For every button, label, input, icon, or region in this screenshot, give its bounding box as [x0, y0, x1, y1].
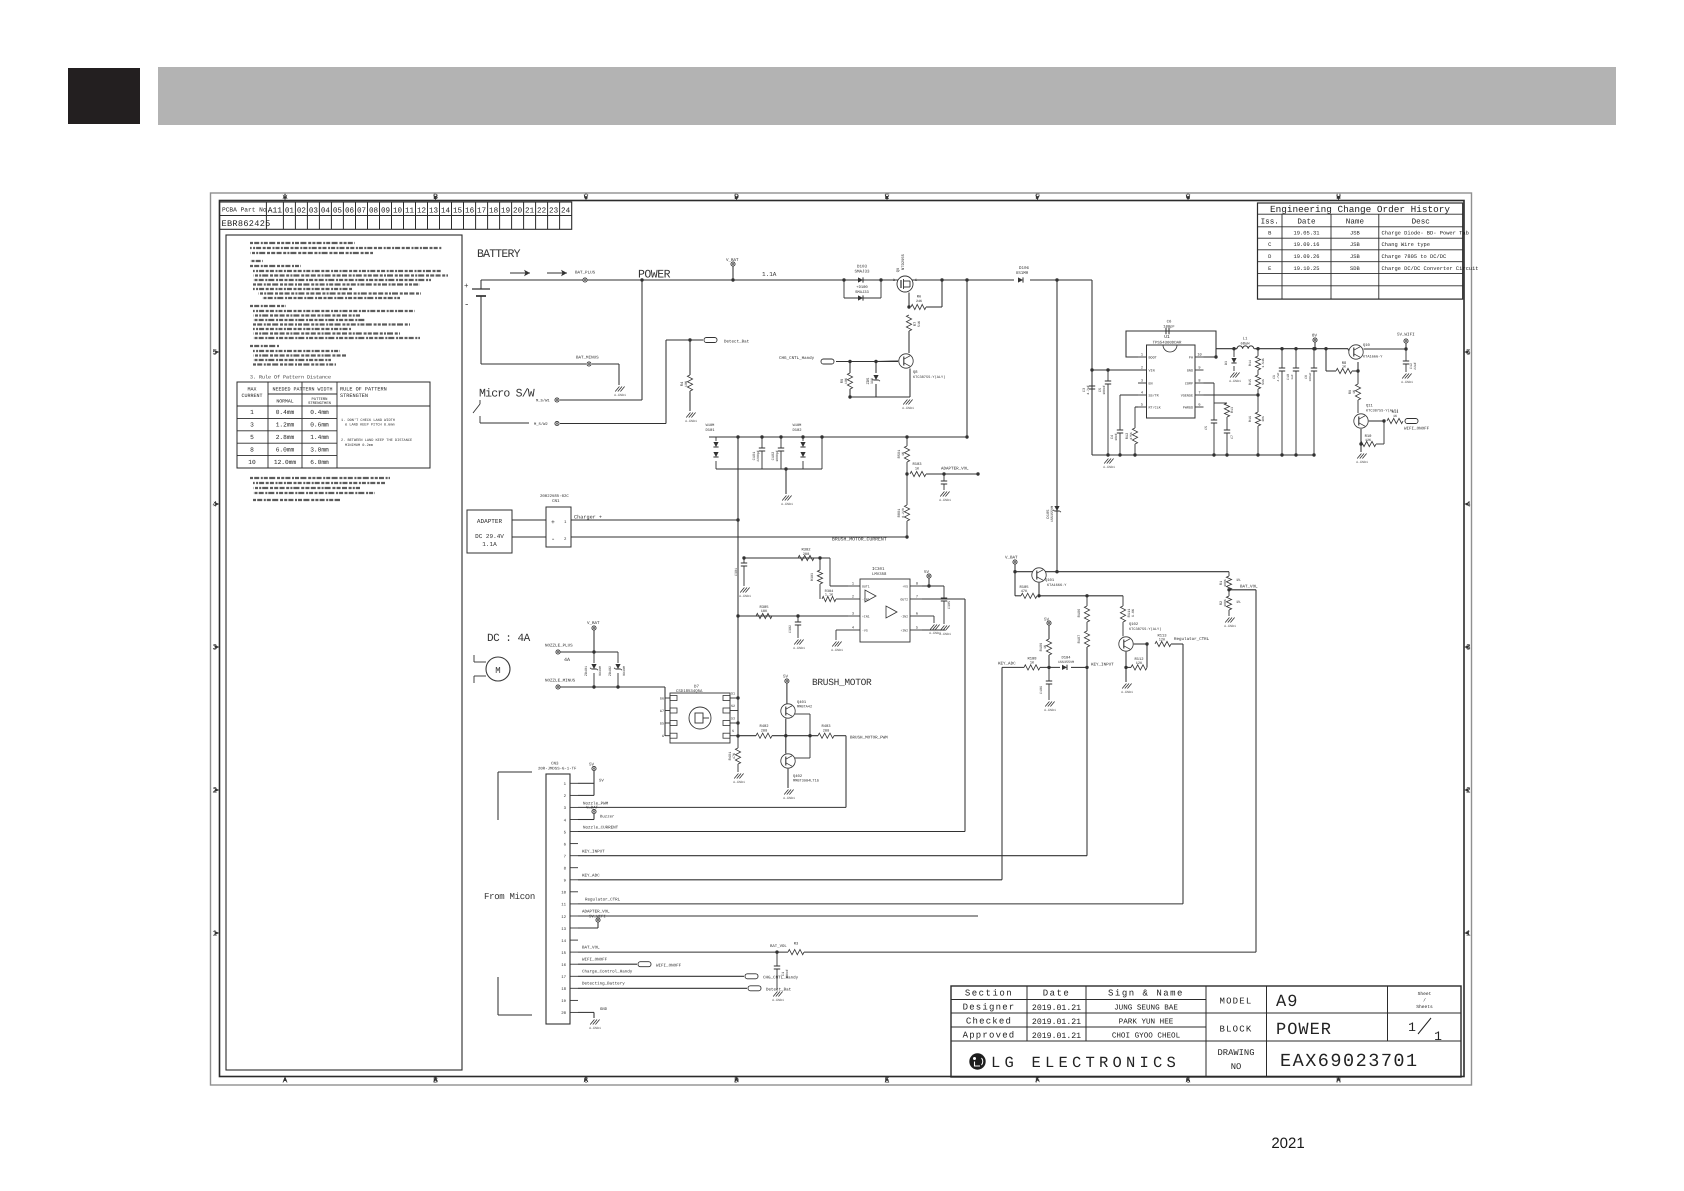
svg-text:14: 14 — [441, 207, 451, 215]
svg-text:C305: C305 — [947, 601, 952, 609]
svg-text:IC301: IC301 — [872, 567, 885, 572]
svg-text:2019.01.21: 2019.01.21 — [1032, 1004, 1081, 1013]
svg-text:4.7uF: 4.7uF — [1086, 385, 1090, 395]
svg-text:M: M — [495, 666, 500, 676]
svg-text:Q102: Q102 — [1129, 622, 1139, 627]
svg-text:A-GND1: A-GND1 — [929, 631, 941, 635]
svg-text:3: 3 — [852, 612, 854, 617]
svg-text:22: 22 — [537, 206, 547, 215]
svg-text:06: 06 — [345, 206, 355, 215]
svg-text:JUNG SEUNG BAE: JUNG SEUNG BAE — [1114, 1004, 1178, 1013]
svg-text:CHOI GYOO CHEOL: CHOI GYOO CHEOL — [1112, 1032, 1181, 1041]
svg-text:100K: 100K — [1223, 579, 1227, 587]
svg-text:DRAWING: DRAWING — [1218, 1048, 1255, 1058]
svg-text:PARK YUN HEE: PARK YUN HEE — [1119, 1019, 1174, 1027]
svg-text:A-GND1: A-GND1 — [1044, 708, 1056, 712]
svg-text:Buzzer: Buzzer — [600, 815, 615, 820]
svg-text:2021: 2021 — [1271, 1135, 1304, 1152]
svg-text:10K: 10K — [761, 609, 768, 614]
svg-text:STRENGTHEN: STRENGTHEN — [308, 401, 331, 406]
svg-text:MAX: MAX — [247, 387, 256, 393]
svg-text:4A: 4A — [564, 657, 570, 663]
svg-text:A-GND1: A-GND1 — [939, 498, 951, 502]
svg-text:Checked: Checked — [966, 1017, 1012, 1027]
svg-text:-IN2: -IN2 — [900, 615, 908, 619]
svg-text:-: - — [464, 300, 469, 310]
svg-text:18: 18 — [561, 987, 566, 992]
svg-text:23: 23 — [549, 206, 559, 215]
svg-text:20R-JMDSS-G-1-TF: 20R-JMDSS-G-1-TF — [538, 767, 577, 772]
svg-text:VIN: VIN — [1149, 369, 1155, 374]
svg-text:TPS54360DDAR: TPS54360DDAR — [1153, 341, 1182, 346]
svg-text:16: 16 — [561, 963, 566, 968]
svg-text:Charge Diode- BD- Power Tab: Charge Diode- BD- Power Tab — [1382, 231, 1469, 237]
svg-text:39V: 39V — [870, 377, 875, 384]
svg-text:SS/TR: SS/TR — [1149, 394, 1159, 399]
svg-text:22uF: 22uF — [1413, 362, 1417, 370]
svg-text:Q101: Q101 — [1045, 578, 1055, 583]
svg-text:WIFI_ONOFF: WIFI_ONOFF — [582, 958, 608, 963]
svg-text:9: 9 — [1198, 366, 1200, 371]
svg-text:CN3: CN3 — [551, 762, 559, 767]
svg-text:11: 11 — [561, 903, 566, 908]
svg-text:G7: G7 — [660, 709, 664, 714]
svg-text:47K: 47K — [732, 752, 737, 759]
svg-text:Detect_Bat: Detect_Bat — [766, 988, 792, 993]
svg-text:R106: R106 — [1077, 609, 1082, 618]
svg-text:12K: 12K — [1365, 438, 1372, 443]
svg-text:EN: EN — [1149, 382, 1153, 387]
svg-text:A11: A11 — [268, 206, 283, 215]
svg-text:G: G — [662, 734, 664, 739]
svg-text:A-GND1: A-GND1 — [902, 406, 914, 410]
svg-text:DC : 4A: DC : 4A — [487, 633, 531, 645]
svg-text:Name: Name — [1346, 219, 1365, 227]
svg-text:Date: Date — [1043, 989, 1071, 999]
svg-text:D104: D104 — [1061, 656, 1071, 661]
svg-text:7: 7 — [1198, 391, 1200, 396]
svg-text:Q401: Q401 — [797, 700, 807, 705]
svg-text:BRUSH_MOTOR_CURRENT: BRUSH_MOTOR_CURRENT — [832, 537, 887, 543]
svg-text:OUT1: OUT1 — [862, 585, 870, 589]
svg-text:02: 02 — [297, 206, 307, 215]
svg-text:A-GND1: A-GND1 — [1103, 465, 1115, 469]
svg-text:6: 6 — [916, 612, 918, 617]
svg-text:R303: R303 — [810, 573, 815, 581]
svg-text:C302: C302 — [788, 625, 793, 633]
svg-text:Q402: Q402 — [793, 774, 803, 779]
svg-text:R107: R107 — [1077, 635, 1082, 644]
svg-text:C5: C5 — [1204, 426, 1209, 430]
svg-text:7: 7 — [916, 595, 918, 600]
svg-text:VSENSE: VSENSE — [1181, 394, 1193, 399]
svg-text:D106: D106 — [1019, 266, 1030, 271]
svg-text:ADAPTER_VOL: ADAPTER_VOL — [582, 910, 610, 915]
svg-text:0.6mm: 0.6mm — [310, 422, 329, 429]
svg-text:05: 05 — [333, 206, 343, 215]
svg-text:11: 11 — [405, 207, 415, 215]
svg-text:2.8mm: 2.8mm — [276, 434, 295, 441]
svg-text:5V: 5V — [589, 763, 595, 768]
svg-text:KEY_INPUT: KEY_INPUT — [582, 850, 605, 855]
svg-text:D7: D7 — [694, 685, 700, 690]
svg-text:13: 13 — [429, 206, 439, 215]
svg-text:BAT_VOL: BAT_VOL — [582, 946, 600, 951]
svg-text:Micro S/W: Micro S/W — [479, 388, 535, 401]
svg-text:S1: S1 — [731, 692, 735, 697]
svg-text:A-GND1: A-GND1 — [1224, 624, 1236, 628]
svg-text:COMP: COMP — [1185, 382, 1193, 387]
svg-text:A-GND1: A-GND1 — [1401, 380, 1413, 384]
svg-text:100pF: 100pF — [1163, 325, 1175, 330]
svg-text:C6: C6 — [1167, 320, 1172, 325]
svg-text:R14: R14 — [1248, 360, 1253, 366]
svg-text:Q11: Q11 — [1366, 404, 1374, 409]
svg-text:08: 08 — [369, 206, 379, 215]
svg-text:100K: 100K — [1223, 599, 1227, 607]
svg-text:BAT_PLUS: BAT_PLUS — [575, 271, 596, 276]
svg-text:19: 19 — [501, 206, 511, 215]
svg-text:6.0mm: 6.0mm — [276, 446, 295, 453]
svg-text:NOZZLE_MINUS: NOZZLE_MINUS — [545, 679, 576, 684]
svg-text:W10M: W10M — [793, 423, 802, 428]
svg-text:R3: R3 — [794, 942, 799, 947]
svg-text:SDB: SDB — [1350, 266, 1360, 272]
svg-text:MODEL: MODEL — [1219, 997, 1252, 1007]
svg-text:Sheets: Sheets — [1416, 1004, 1433, 1010]
svg-text:R302: R302 — [801, 548, 811, 553]
svg-text:V_BAT: V_BAT — [586, 806, 599, 811]
svg-text:BATTERY: BATTERY — [477, 248, 521, 261]
svg-text:1uF: 1uF — [1291, 374, 1294, 380]
svg-text:D101: D101 — [705, 428, 715, 433]
svg-text:4.7uF: 4.7uF — [1277, 372, 1280, 381]
svg-text:G5: G5 — [660, 722, 664, 727]
svg-text:10K: 10K — [1261, 416, 1265, 422]
svg-text:5V_WIFI: 5V_WIFI — [1397, 333, 1415, 338]
svg-text:+IN2: +IN2 — [900, 629, 908, 633]
svg-text:EBR862425: EBR862425 — [222, 219, 271, 229]
svg-text:NEEDED PATTERN WIDTH: NEEDED PATTERN WIDTH — [272, 387, 332, 393]
svg-text:6.0mm: 6.0mm — [310, 459, 329, 466]
svg-text:8: 8 — [1198, 379, 1200, 384]
svg-text:A-GND1: A-GND1 — [589, 1026, 601, 1030]
svg-text:12K: 12K — [1159, 638, 1166, 643]
svg-text:JSB: JSB — [1350, 231, 1360, 237]
svg-text:A-GND1: A-GND1 — [1229, 379, 1241, 383]
svg-text:2. BETWEEN LAND KEEP THE DISTA: 2. BETWEEN LAND KEEP THE DISTANCE — [341, 438, 412, 443]
svg-text:24K: 24K — [916, 299, 923, 304]
svg-text:S3: S3 — [731, 717, 735, 722]
svg-text:1SS355VM: 1SS355VM — [1058, 660, 1074, 665]
svg-text:19: 19 — [561, 999, 566, 1004]
svg-text:PCBA Part No.: PCBA Part No. — [222, 207, 270, 214]
svg-text:PH: PH — [1189, 356, 1193, 361]
svg-text:BRUSH_MOTOR_PWM: BRUSH_MOTOR_PWM — [850, 736, 888, 741]
svg-text:-IN1: -IN1 — [862, 598, 870, 602]
svg-text:10: 10 — [393, 206, 403, 215]
svg-text:3. Rule Of Pattern Distance: 3. Rule Of Pattern Distance — [250, 375, 331, 381]
svg-text:20022985-02C: 20022985-02C — [540, 494, 569, 499]
svg-text:21: 21 — [525, 206, 535, 215]
svg-text:5: 5 — [250, 434, 254, 441]
svg-text:1SS355VM: 1SS355VM — [1050, 506, 1055, 522]
svg-text:R103: R103 — [912, 462, 922, 467]
svg-text:Detect_Bat: Detect_Bat — [724, 340, 750, 345]
svg-text:MMBTA42: MMBTA42 — [797, 705, 812, 710]
svg-text:KEY_ADC: KEY_ADC — [998, 662, 1016, 667]
svg-text:6.8K: 6.8K — [1131, 608, 1136, 617]
svg-text:51K: 51K — [917, 320, 922, 327]
svg-text:01: 01 — [285, 206, 295, 215]
svg-text:1.2mm: 1.2mm — [276, 422, 295, 429]
svg-text:10K: 10K — [844, 377, 849, 384]
svg-text:KEY_ADC: KEY_ADC — [582, 874, 600, 879]
svg-text:S: S — [732, 729, 734, 734]
svg-text:A9: A9 — [1276, 993, 1298, 1012]
svg-text:1: 1 — [1408, 1020, 1416, 1035]
svg-text:RULE OF PATTERN: RULE OF PATTERN — [340, 387, 387, 393]
svg-text:MMBT3904LT1G: MMBT3904LT1G — [793, 779, 819, 784]
svg-text:D3: D3 — [1224, 361, 1229, 365]
svg-text:E: E — [1268, 266, 1271, 272]
svg-text:Chang Wire type: Chang Wire type — [1382, 242, 1431, 248]
svg-text:0.4mm: 0.4mm — [276, 409, 295, 416]
svg-text:M_S/W2: M_S/W2 — [534, 422, 548, 427]
svg-text:15: 15 — [453, 207, 463, 215]
svg-text:18: 18 — [489, 206, 499, 215]
svg-text:19.10.25: 19.10.25 — [1294, 266, 1320, 272]
svg-text:RD39M: RD39M — [622, 666, 626, 676]
svg-text:Iss.: Iss. — [1261, 219, 1279, 227]
svg-text:Engineering Change Order Histo: Engineering Change Order History — [1270, 204, 1450, 215]
svg-text:5V_WIFI: 5V_WIFI — [589, 915, 606, 920]
svg-text:Charge DC/DC Converter Circuit: Charge DC/DC Converter Circuit — [1382, 266, 1479, 272]
svg-text:Sheet: Sheet — [1418, 991, 1432, 997]
svg-text:17: 17 — [561, 975, 566, 980]
svg-text:4: 4 — [1141, 391, 1143, 396]
svg-text:5: 5 — [1141, 403, 1143, 408]
svg-text:475K: 475K — [1129, 432, 1133, 440]
svg-text:R402: R402 — [759, 724, 769, 729]
svg-text:100uF: 100uF — [1309, 372, 1312, 381]
svg-text:14: 14 — [561, 939, 566, 944]
svg-text:10nF: 10nF — [1114, 433, 1118, 441]
svg-text:/: / — [1423, 998, 1426, 1004]
svg-text:WIFI_ONOFF: WIFI_ONOFF — [656, 964, 682, 969]
svg-text:10K: 10K — [684, 380, 689, 387]
svg-text:NOZZLE_PLUS: NOZZLE_PLUS — [545, 644, 573, 649]
svg-text:0.22R: 0.22R — [901, 508, 905, 518]
svg-text:R15: R15 — [1248, 379, 1253, 385]
svg-text:BOOT: BOOT — [1149, 356, 1157, 361]
svg-text:C106: C106 — [1039, 686, 1044, 694]
svg-text:KTA1666-Y: KTA1666-Y — [1363, 355, 1383, 360]
svg-text:A-GND1: A-GND1 — [831, 648, 843, 652]
svg-text:D: D — [893, 278, 895, 283]
svg-text:Section: Section — [965, 989, 1013, 999]
svg-text:& LAND KEEP PITCH 0.6mm: & LAND KEEP PITCH 0.6mm — [345, 423, 395, 428]
svg-text:D103: D103 — [857, 265, 868, 270]
svg-text:09: 09 — [381, 206, 391, 215]
svg-text:ZD401: ZD401 — [584, 666, 589, 676]
svg-text:12K: 12K — [1136, 661, 1143, 666]
svg-text:CN1: CN1 — [552, 499, 560, 504]
svg-text:KTC3875S-Y(ALY): KTC3875S-Y(ALY) — [1129, 627, 1161, 632]
svg-text:200: 200 — [761, 729, 767, 734]
svg-text:1: 1 — [1141, 353, 1143, 358]
svg-text:17: 17 — [477, 207, 486, 215]
svg-text:JSB: JSB — [1350, 254, 1360, 260]
svg-text:3: 3 — [250, 422, 254, 429]
svg-text:DC 29.4V: DC 29.4V — [475, 533, 504, 540]
svg-text:A-GND1: A-GND1 — [1121, 690, 1133, 694]
svg-text:07: 07 — [357, 206, 366, 215]
svg-text:10: 10 — [248, 459, 256, 466]
svg-text:3: 3 — [1141, 379, 1143, 384]
svg-text:+: + — [551, 519, 555, 526]
svg-text:+IN1: +IN1 — [862, 615, 870, 619]
svg-text:+VS: +VS — [902, 585, 908, 589]
svg-text:Approved: Approved — [963, 1031, 1016, 1041]
svg-text:US1M0: US1M0 — [1016, 271, 1029, 276]
svg-text:5V: 5V — [599, 779, 604, 784]
svg-text:100nF: 100nF — [1102, 385, 1106, 395]
svg-text:Q10: Q10 — [1363, 343, 1371, 348]
svg-text:1.1A: 1.1A — [482, 541, 497, 548]
svg-text:47K: 47K — [1021, 589, 1028, 594]
svg-text:1. DON'T CHECK LAND WIDTH: 1. DON'T CHECK LAND WIDTH — [341, 418, 395, 423]
svg-text:A-GND1: A-GND1 — [783, 796, 795, 800]
svg-text:Desc: Desc — [1412, 219, 1430, 227]
svg-text:C7: C7 — [1230, 435, 1235, 439]
svg-text:200: 200 — [823, 729, 829, 734]
svg-text:19.05.31: 19.05.31 — [1294, 231, 1320, 237]
svg-text:From Micon: From Micon — [484, 892, 535, 902]
svg-text:GND: GND — [1187, 369, 1193, 374]
svg-text:2200pF: 2200pF — [756, 450, 760, 462]
svg-text:KTC3875S-Y(ALY): KTC3875S-Y(ALY) — [913, 375, 945, 380]
svg-text:-: - — [551, 536, 555, 544]
svg-text:04: 04 — [321, 206, 331, 215]
svg-text:WIFI_ONOFF: WIFI_ONOFF — [1404, 427, 1430, 432]
svg-text:W10M: W10M — [706, 423, 715, 428]
svg-text:C: C — [1268, 242, 1271, 248]
svg-text:SMAJ33: SMAJ33 — [854, 270, 870, 275]
svg-text:19.09.26: 19.09.26 — [1294, 254, 1320, 260]
svg-text:Date: Date — [1297, 218, 1316, 227]
svg-text:1: 1 — [852, 582, 854, 587]
svg-text:STRENGTEN: STRENGTEN — [340, 393, 368, 399]
svg-text:R403: R403 — [821, 724, 831, 729]
svg-text:BAT_VOL: BAT_VOL — [1240, 585, 1258, 590]
svg-text:A-GND1: A-GND1 — [793, 646, 805, 650]
svg-text:RT/CLK: RT/CLK — [1149, 406, 1162, 411]
svg-text:24: 24 — [561, 206, 571, 215]
svg-text:CURRENT: CURRENT — [241, 393, 262, 399]
svg-text:3.0mm: 3.0mm — [310, 446, 329, 453]
svg-text:POWER: POWER — [1276, 1021, 1332, 1040]
svg-text:RD39M: RD39M — [598, 666, 602, 676]
svg-text:6: 6 — [1198, 403, 1200, 408]
svg-text:12: 12 — [561, 915, 566, 920]
svg-text:A-GND1: A-GND1 — [781, 502, 793, 506]
svg-text:Sign & Name: Sign & Name — [1108, 989, 1184, 999]
svg-text:1: 1 — [1434, 1029, 1442, 1044]
svg-text:19.09.16: 19.09.16 — [1294, 242, 1320, 248]
svg-text:Q8: Q8 — [913, 370, 918, 375]
svg-text:0.4mm: 0.4mm — [310, 409, 329, 416]
svg-text:2: 2 — [1141, 366, 1143, 371]
svg-text:-VS: -VS — [862, 629, 868, 633]
svg-text:51K: 51K — [1261, 379, 1265, 385]
svg-text:R6: R6 — [917, 295, 922, 300]
svg-text:13: 13 — [561, 927, 566, 932]
svg-text:1.54K: 1.54K — [1261, 358, 1265, 368]
svg-text:BLOCK: BLOCK — [1219, 1025, 1252, 1035]
svg-text:+: + — [464, 283, 469, 291]
svg-text:15: 15 — [561, 951, 566, 956]
svg-text:4: 4 — [852, 626, 854, 631]
svg-text:A-GND1: A-GND1 — [733, 780, 745, 784]
svg-text:5: 5 — [916, 626, 918, 631]
svg-text:16: 16 — [465, 206, 475, 215]
svg-text:KEY_INPUT: KEY_INPUT — [1091, 663, 1114, 668]
svg-text:ZD402: ZD402 — [608, 666, 613, 676]
svg-text:JSB: JSB — [1350, 242, 1360, 248]
svg-text:NTD2955: NTD2955 — [901, 253, 906, 270]
svg-text:12: 12 — [417, 206, 427, 215]
svg-text:LMV358: LMV358 — [872, 572, 887, 577]
svg-text:M_S/W1: M_S/W1 — [536, 399, 550, 404]
svg-text:1: 1 — [250, 409, 254, 416]
svg-text:KTA1666-Y: KTA1666-Y — [1047, 583, 1067, 588]
svg-text:LG ELECTRONICS: LG ELECTRONICS — [991, 1054, 1180, 1072]
svg-text:1.4mm: 1.4mm — [310, 434, 329, 441]
svg-text:MINIMUM 0.2mm: MINIMUM 0.2mm — [345, 443, 373, 448]
svg-text:20: 20 — [561, 1011, 566, 1016]
svg-text:GND: GND — [600, 1007, 608, 1012]
svg-text:Q9: Q9 — [896, 267, 901, 272]
svg-text:R16: R16 — [1248, 416, 1253, 422]
svg-text:A-GND1: A-GND1 — [772, 998, 784, 1002]
svg-text:A-GND1: A-GND1 — [739, 594, 751, 598]
svg-text:S2: S2 — [731, 704, 735, 709]
svg-text:EAX69023701: EAX69023701 — [1280, 1051, 1419, 1072]
svg-text:SMAJ33: SMAJ33 — [855, 290, 869, 295]
svg-text:NORMAL: NORMAL — [276, 399, 293, 405]
svg-text:OUT2: OUT2 — [900, 598, 908, 602]
svg-text:CSD18534Q5A: CSD18534Q5A — [676, 689, 703, 694]
svg-text:L1: L1 — [1243, 337, 1248, 342]
svg-text:03: 03 — [309, 206, 319, 215]
svg-text:S: S — [915, 278, 917, 283]
svg-text:A-GND1: A-GND1 — [685, 419, 697, 423]
svg-text:Charge 7805 to DC/DC: Charge 7805 to DC/DC — [1382, 254, 1447, 260]
svg-text:BAT_MINUS: BAT_MINUS — [576, 356, 599, 361]
svg-text:68uH: 68uH — [1240, 342, 1249, 347]
svg-text:U1: U1 — [1164, 334, 1170, 340]
svg-text:Designer: Designer — [963, 1003, 1016, 1013]
svg-text:+D100: +D100 — [856, 285, 868, 290]
svg-text:8: 8 — [916, 582, 918, 587]
svg-text:8: 8 — [250, 446, 254, 453]
svg-text:20: 20 — [513, 206, 523, 215]
svg-text:G6: G6 — [660, 697, 664, 702]
svg-text:BAT_VOL: BAT_VOL — [770, 944, 787, 949]
svg-text:1000pF: 1000pF — [775, 450, 779, 462]
svg-text:12.0mm: 12.0mm — [274, 459, 297, 466]
